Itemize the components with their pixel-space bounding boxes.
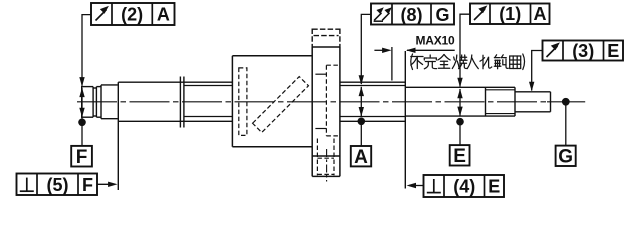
- ring land after groove: [96, 85, 101, 119]
- (: [411, 54, 413, 70]
- svg-text:MAX10: MAX10: [415, 33, 455, 47]
- thread root lines right of flange: [340, 86, 405, 117]
- svg-text:E: E: [488, 176, 500, 196]
- 囲: [510, 56, 521, 69]
- thread start marks (double lines): [180, 77, 184, 128]
- leader from frame (8) to thread OD: [359, 14, 371, 84]
- svg-text:(8): (8): [401, 5, 423, 25]
- diameter arrows at datum A location: [359, 87, 364, 117]
- diameter arrows at datum E location: [457, 89, 462, 116]
- feature control frame (5) F: [17, 174, 98, 196]
- main shaft body outline: [118, 82, 232, 121]
- nut flange outline: [312, 47, 340, 176]
- flange face step lines: [315, 74, 326, 128]
- hidden thread line in flange top boss: [314, 35, 339, 37]
- 不: [411, 57, 423, 69]
- thread minor lines on end thread: [486, 90, 516, 114]
- hidden bore rectangle inside nut: [239, 68, 247, 135]
- circlip groove on left journal: [93, 87, 96, 118]
- ball circuit (diagonal hidden rectangle): [253, 77, 309, 133]
- centerline of screw shaft: [77, 101, 547, 103]
- hidden top boss of flange (dashed): [312, 29, 340, 48]
- 完: [424, 55, 436, 69]
- svg-text:(2): (2): [121, 4, 143, 24]
- datum G box: [556, 146, 576, 168]
- svg-text:(5): (5): [47, 175, 69, 195]
- ball thread section right of flange: [340, 82, 405, 121]
- svg-text:G: G: [558, 147, 573, 168]
- datum F target dot and leader: [78, 117, 86, 146]
- 入: [467, 55, 478, 69]
- annotation (incomplete hardening range) hand-drawn CJK: [411, 54, 525, 70]
- feature control frame (1) A: [470, 4, 550, 25]
- svg-text:G: G: [435, 5, 449, 25]
- arrow from frame (5) to shoulder extension line: [97, 182, 118, 187]
- svg-text:(3): (3): [572, 41, 594, 61]
- svg-text:A: A: [534, 4, 547, 24]
- ball nut body: [232, 56, 312, 147]
- datum F box: [71, 146, 92, 168]
- 範: [494, 55, 508, 69]
- れ: [480, 55, 492, 69]
- MAX10 dimension line right segment: [406, 48, 455, 53]
- left end journal (small cylinder): [81, 87, 93, 118]
- grease hole centerline: [326, 149, 328, 182]
- arrow from frame (4) to thread end extension line: [407, 183, 424, 188]
- svg-text:A: A: [157, 4, 170, 24]
- main shaft shoulder + extension line to frame (5): [117, 82, 119, 190]
- hidden pilot rectangle in flange: [326, 65, 340, 136]
- plain journal after thread: [405, 87, 485, 116]
- last end journal: [515, 92, 551, 112]
- feature control frame (8) G: [371, 4, 454, 25]
- leader from frame (3) to end journal: [529, 51, 543, 92]
- hidden grease hole in flange bottom boss: [317, 139, 334, 176]
- threaded end section: [486, 87, 516, 116]
- thread end boundary + extension line to frame (4): [404, 51, 406, 189]
- datum G target dot on centerline: [562, 98, 570, 146]
- svg-text:E: E: [453, 146, 466, 167]
- 全: [438, 55, 450, 69]
- leader from frame (1) to journal at datum E: [457, 14, 470, 87]
- datum A box: [351, 146, 371, 168]
- datum A target dot and leader: [358, 118, 366, 147]
- svg-text:(1): (1): [499, 4, 521, 24]
- svg-text:F: F: [82, 175, 93, 195]
- MAX10 dimension line left segment: [374, 48, 391, 53]
- leader from frame (2) to left journal: [79, 15, 91, 87]
- datum E box: [450, 145, 470, 167]
- diameter arrows on left journal: [79, 88, 84, 118]
- feature control frame (4) E: [424, 175, 505, 197]
- 焼: [452, 55, 467, 69]
- MAX10 dimension extension line (hardened zone end): [391, 47, 393, 81]
- svg-text:A: A: [354, 147, 368, 168]
- svg-text:E: E: [607, 41, 619, 61]
- svg-text:(4): (4): [453, 176, 475, 196]
- feature control frame (2) A: [91, 3, 175, 25]
- feature control frame (3) E: [543, 41, 624, 62]
- ): [523, 54, 525, 70]
- mid journal step: [101, 85, 118, 119]
- ball thread root lines (left of nut): [184, 86, 233, 117]
- svg-text:F: F: [76, 147, 88, 168]
- datum E target dot and leader: [456, 118, 464, 145]
